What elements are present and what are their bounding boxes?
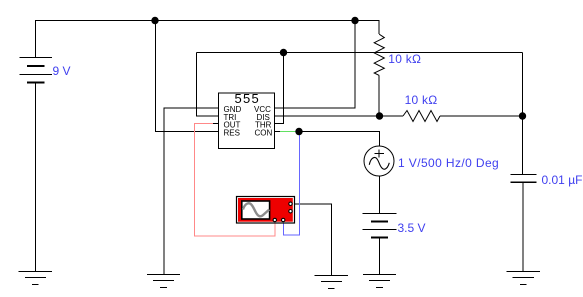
wire CON green	[280, 131, 296, 133]
pin label TRI	[224, 113, 237, 122]
label 1 V/500 Hz/0 Deg	[398, 156, 499, 170]
wire DIS to node	[275, 115, 380, 117]
svg-text:3.5 V: 3.5 V	[398, 221, 426, 235]
wire capacitor to ground	[522, 183, 524, 272]
svg-text:555: 555	[235, 91, 261, 106]
label 0.01 uF	[542, 173, 583, 187]
battery V1	[20, 58, 53, 83]
ground (capacitor)	[506, 272, 540, 285]
wire VCC riser x=355	[275, 21, 356, 109]
junction dot DIS node	[376, 112, 383, 119]
ground (battery V3)	[363, 275, 396, 288]
wire R2 leads	[380, 115, 523, 117]
wire scope to ground	[291, 204, 332, 276]
junction dot top rail x=355	[351, 17, 358, 24]
svg-text:RES: RES	[224, 129, 240, 138]
svg-text:1 V/500 Hz/0 Deg: 1 V/500 Hz/0 Deg	[398, 156, 499, 170]
wire THR riser x=283.5	[275, 53, 284, 124]
junction dot top rail x=155	[151, 17, 158, 24]
svg-text:0.01 µF: 0.01 µF	[542, 173, 583, 187]
pin label DIS	[257, 113, 270, 122]
wire TRI-THR-cap rail y=52.5	[197, 52, 523, 54]
svg-text:CON: CON	[255, 129, 273, 138]
pin label GND	[224, 105, 242, 114]
junction dot cap node	[519, 112, 526, 119]
pin label RES	[224, 129, 240, 138]
wire battery V3 to ground	[379, 239, 381, 275]
pin label OUT	[224, 121, 241, 130]
AC source V2	[364, 146, 394, 176]
wire OUT red	[195, 124, 276, 237]
oscilloscope XSC1	[237, 197, 295, 224]
pin label CON	[255, 129, 273, 138]
wire OUT black stub	[213, 123, 219, 125]
wire R1 bottom	[378, 75, 380, 116]
junction dot THR tap	[280, 49, 287, 56]
resistor R2	[403, 111, 440, 122]
wire top rail	[36, 21, 380, 58]
wire CON black stub	[275, 131, 281, 133]
ground (IC GND)	[147, 275, 180, 288]
svg-text:10 kΩ: 10 kΩ	[405, 93, 438, 107]
label R1 10 kOhm	[388, 52, 421, 66]
junction dot CON node	[295, 128, 302, 135]
wire TRI riser x=196	[197, 53, 219, 117]
resistor R1	[374, 34, 384, 75]
label 9 V	[53, 64, 71, 78]
wire battery V1 to ground	[35, 83, 37, 272]
pin label THR	[255, 121, 272, 130]
ground (battery V1)	[19, 272, 53, 285]
pin label VCC	[254, 105, 271, 114]
wire RES riser x=155	[156, 21, 219, 132]
wire AC source to battery V3	[379, 176, 381, 214]
wire CON to AC source	[299, 132, 380, 147]
wire right branch to capacitor	[522, 53, 524, 175]
svg-text:10 kΩ: 10 kΩ	[388, 52, 421, 66]
ground (scope)	[315, 276, 348, 289]
wire scope B blue	[284, 132, 300, 236]
label 3.5 V	[398, 221, 426, 235]
wire GND to ground x=164	[164, 108, 219, 275]
capacitor C1	[511, 175, 537, 183]
svg-text:9 V: 9 V	[53, 64, 71, 78]
op-amp-timer U1 555 box	[219, 91, 275, 149]
label R2 10 kOhm	[405, 93, 438, 107]
battery V3	[363, 214, 397, 238]
